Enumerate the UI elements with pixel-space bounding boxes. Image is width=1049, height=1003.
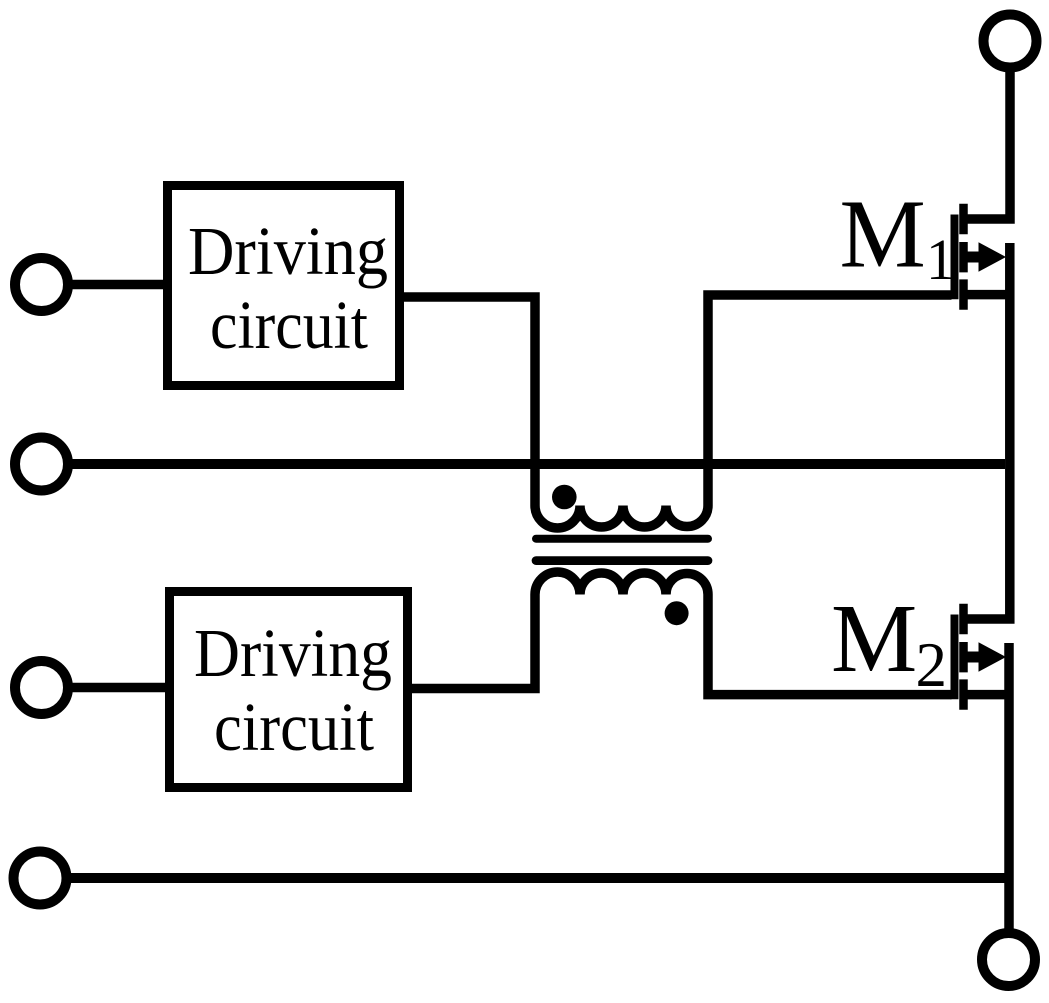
transistor M2 channel segments: [959, 604, 968, 710]
wire box1 output + transformer primary winding + wire to M1 gate: [404, 295, 952, 528]
transistor M1 body arrow: [964, 242, 1007, 272]
svg-text:Driving: Driving: [194, 615, 392, 691]
wire M2 source down to T6: [1004, 643, 1014, 930]
label: Driving circuit (box 1): [188, 213, 388, 363]
label: M2: [831, 585, 947, 700]
terminal T6 (bottom right, source of M2): [982, 933, 1035, 986]
label: M1: [840, 181, 956, 293]
transformer primary phase dot: [552, 485, 577, 510]
transistor M1 channel segments: [959, 204, 968, 310]
transistor M2 gate bar: [951, 615, 959, 700]
box driving circuit 2: [170, 592, 408, 788]
transistor M2 source wire: [964, 690, 1010, 700]
transistor M1 source wire: [964, 290, 1010, 300]
svg-text:M: M: [831, 585, 917, 692]
svg-text:M: M: [840, 181, 926, 288]
transistor M2 body arrow: [964, 642, 1007, 672]
transformer core line 2: [536, 556, 708, 565]
label: Driving circuit (box 2): [194, 615, 392, 765]
box driving circuit 1: [168, 186, 400, 386]
terminal T5 (top right, drain of M1): [984, 15, 1037, 68]
svg-text:Driving: Driving: [188, 213, 388, 289]
svg-text:1: 1: [926, 227, 955, 292]
transformer core line 1: [536, 535, 708, 543]
transistor M1 gate bar: [951, 215, 959, 300]
svg-text:circuit: circuit: [210, 287, 368, 363]
terminal T2 (second left input): [15, 438, 68, 491]
terminal T4 (bottom left input): [14, 852, 67, 905]
svg-text:circuit: circuit: [214, 689, 374, 765]
wire T2 to right vertical (mid node): [68, 459, 1005, 469]
wire T4 to bottom right vertical: [66, 873, 1009, 883]
wire T3 to driving circuit 2: [68, 683, 169, 693]
wire box2 output + transformer secondary winding + wire to M2 gate: [412, 572, 952, 695]
wire T5 down to M1 drain: [964, 70, 1011, 219]
wire T1 to driving circuit 1: [68, 280, 167, 290]
svg-text:2: 2: [916, 630, 948, 700]
terminal T3 (third left input): [15, 661, 68, 714]
wire M1 source to M2 drain (right vertical): [964, 243, 1010, 619]
terminal T1 (top left input): [15, 258, 68, 311]
transformer secondary phase dot: [665, 601, 689, 625]
